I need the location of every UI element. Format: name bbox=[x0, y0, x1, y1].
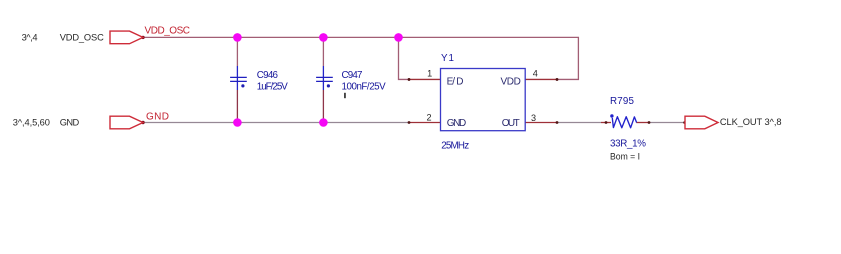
svg-text:3^,4: 3^,4 bbox=[22, 33, 38, 43]
svg-text:2: 2 bbox=[427, 113, 432, 123]
svg-text:VDD: VDD bbox=[501, 77, 521, 88]
svg-text:VDD_OSC: VDD_OSC bbox=[60, 33, 104, 43]
svg-text:CLK_OUT 3^,8: CLK_OUT 3^,8 bbox=[720, 117, 782, 127]
svg-text:Bom = I: Bom = I bbox=[610, 151, 640, 162]
svg-text:Y1: Y1 bbox=[441, 53, 454, 64]
svg-text:VDD_OSC: VDD_OSC bbox=[145, 26, 191, 37]
svg-text:OUT: OUT bbox=[502, 118, 520, 129]
svg-text:25MHz: 25MHz bbox=[441, 140, 469, 151]
svg-text:GND: GND bbox=[60, 118, 80, 128]
svg-text:/: / bbox=[452, 77, 455, 88]
svg-text:4: 4 bbox=[533, 69, 538, 79]
svg-text:C947: C947 bbox=[342, 70, 363, 81]
svg-text:1: 1 bbox=[427, 68, 432, 78]
svg-text:33R_1%: 33R_1% bbox=[610, 139, 646, 150]
svg-text:1uF/25V: 1uF/25V bbox=[257, 82, 288, 93]
svg-text:3: 3 bbox=[531, 113, 536, 123]
svg-text:D: D bbox=[456, 77, 463, 88]
svg-text:100nF/25V: 100nF/25V bbox=[342, 82, 387, 93]
svg-text:C946: C946 bbox=[257, 70, 279, 81]
svg-text:GND: GND bbox=[447, 118, 467, 129]
svg-text:R795: R795 bbox=[610, 96, 635, 107]
svg-text:GND: GND bbox=[146, 112, 169, 123]
svg-text:3^,4,5,60: 3^,4,5,60 bbox=[13, 118, 50, 128]
